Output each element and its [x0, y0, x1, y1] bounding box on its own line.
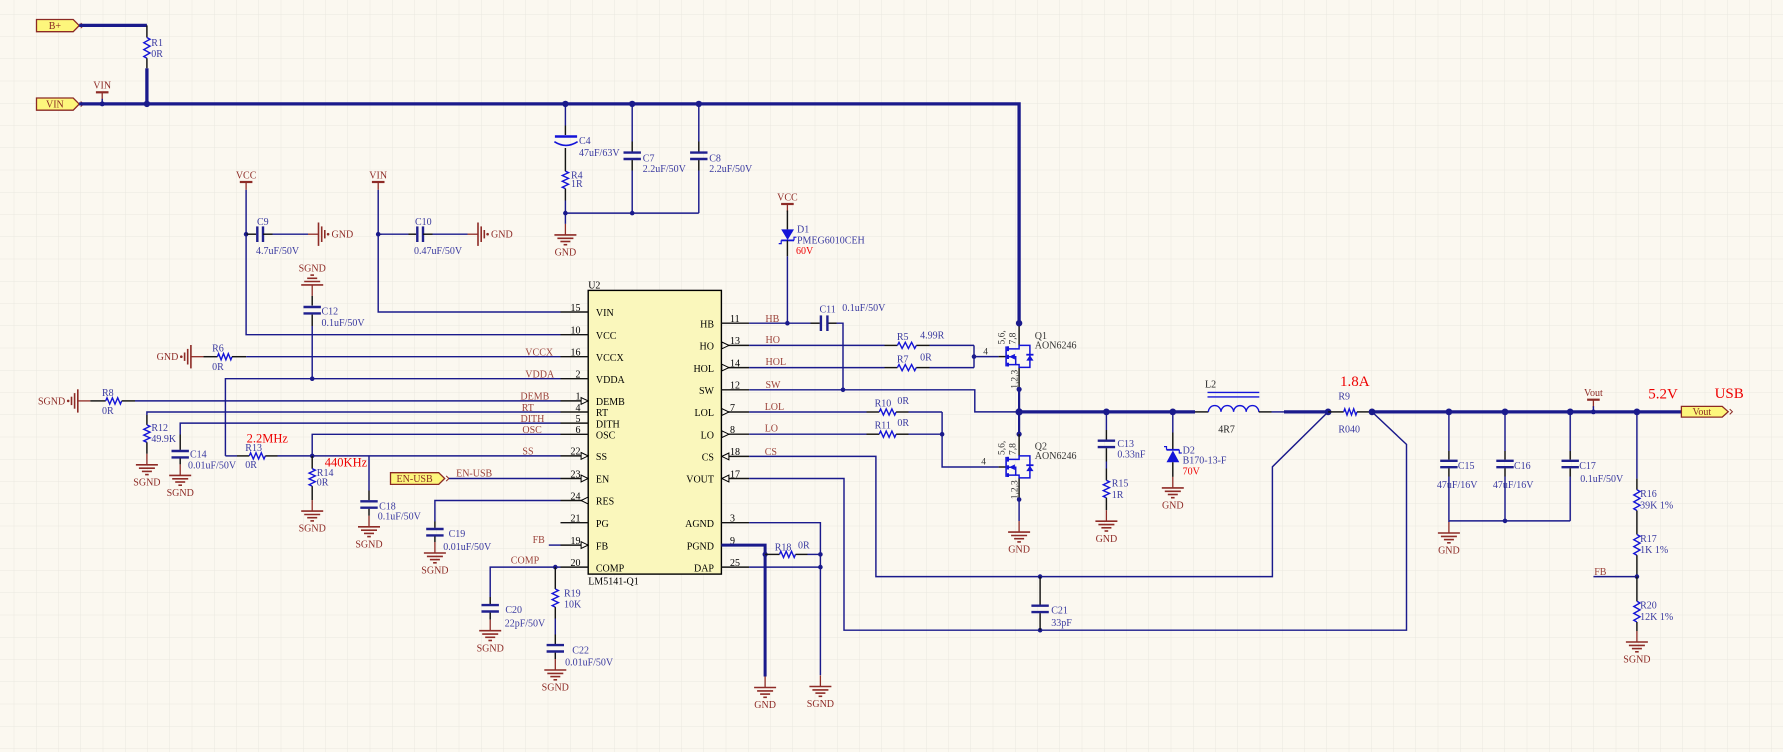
pin 19 FB — [561, 544, 589, 546]
wire to C4 — [564, 104, 566, 126]
capacitor C8 — [690, 151, 707, 153]
wire C17 to gnd rail — [1569, 477, 1571, 521]
svg-text:2.2uF/50V: 2.2uF/50V — [709, 164, 753, 175]
capacitor C17 — [1562, 460, 1579, 462]
ground GND at C9 — [308, 223, 353, 246]
wire HOL row — [749, 367, 884, 369]
pin 6 OSC — [561, 433, 589, 435]
svg-text:DEMB: DEMB — [520, 392, 549, 403]
svg-text:SGND: SGND — [38, 396, 65, 407]
svg-text:20: 20 — [571, 558, 581, 569]
junction C16 on Vout rail — [1502, 409, 1509, 416]
capacitor C13 — [1098, 440, 1115, 442]
svg-text:LO: LO — [701, 430, 714, 441]
wire input cap ground rail — [565, 212, 698, 214]
wire C10 lead — [409, 233, 417, 235]
svg-text:C11: C11 — [820, 304, 836, 315]
wire DITH row — [180, 423, 560, 434]
wire R6 right lead — [232, 356, 246, 358]
junction Q2 drain — [1017, 432, 1022, 437]
svg-text:10: 10 — [571, 326, 581, 337]
svg-text:0R: 0R — [245, 460, 257, 471]
wire R12 bottom lead — [146, 442, 148, 454]
svg-text:5.2V: 5.2V — [1648, 386, 1678, 402]
resistor R16 — [1634, 490, 1640, 511]
svg-text:7,8: 7,8 — [1008, 332, 1018, 344]
pin 13 HO — [721, 344, 749, 346]
svg-text:4.99R: 4.99R — [920, 331, 945, 342]
svg-text:HO: HO — [766, 335, 780, 346]
wire R13 right lead — [265, 455, 277, 457]
ground SGND at C14 — [167, 464, 194, 499]
junction C13 — [1103, 409, 1110, 416]
wire VIN bus — [79, 104, 1019, 323]
ground GND at C15 — [1438, 522, 1460, 557]
wire VIN rail down to pin VIN — [378, 234, 560, 312]
wire R8 left lead — [90, 400, 105, 402]
junction D1/HB — [785, 321, 790, 326]
svg-text:GND: GND — [1008, 545, 1030, 556]
op-amp/controller U2 LM5141-Q1 body — [588, 290, 721, 574]
arrow input FB — [581, 542, 588, 549]
svg-text:0R: 0R — [920, 353, 932, 364]
svg-text:C10: C10 — [415, 217, 432, 228]
svg-text:4.7uF/50V: 4.7uF/50V — [256, 246, 300, 257]
svg-text:23: 23 — [571, 469, 581, 480]
wire OSC row — [312, 434, 560, 456]
wire SW node to Q2 drain — [1018, 412, 1020, 434]
svg-text:GND: GND — [754, 700, 776, 711]
junction Q2 source — [1017, 497, 1022, 502]
svg-text:0R: 0R — [151, 49, 163, 60]
svg-text:0R: 0R — [897, 418, 909, 429]
svg-text:17: 17 — [730, 469, 740, 480]
wire Vout power stub — [1592, 406, 1594, 412]
wire R7 left lead — [885, 367, 898, 369]
resistor R6 — [217, 354, 232, 360]
wire C13 bottom lead — [1105, 448, 1107, 461]
svg-text:C20: C20 — [505, 605, 522, 616]
wire C8 top lead — [698, 142, 700, 152]
svg-text:R9: R9 — [1338, 391, 1350, 402]
pin 21 PG — [561, 522, 589, 524]
svg-text:VCCX: VCCX — [596, 353, 625, 364]
wire gnd rail to GND — [564, 213, 566, 224]
wire SW thick rail — [1019, 410, 1195, 413]
wire D1 cathode lead — [786, 240, 788, 256]
svg-text:1,2,3: 1,2,3 — [1010, 369, 1020, 388]
wire C16 top lead — [1504, 451, 1506, 460]
svg-text:12: 12 — [730, 381, 740, 392]
svg-text:DAP: DAP — [694, 563, 714, 574]
junction R16 on Vout rail — [1634, 409, 1641, 416]
svg-text:22pF/50V: 22pF/50V — [505, 619, 546, 630]
svg-text:HB: HB — [700, 319, 714, 330]
wire C12 to VDDA rail — [311, 326, 313, 379]
resistor R14 — [309, 469, 315, 486]
capacitor C4 (polarized) — [554, 137, 577, 146]
ground SGND above C12 — [299, 264, 326, 296]
svg-text:CS: CS — [702, 453, 714, 464]
pin 2 VDDA — [561, 378, 589, 380]
svg-text:0.1uF/50V: 0.1uF/50V — [842, 303, 886, 314]
svg-text:R8: R8 — [102, 388, 114, 399]
svg-text:SGND: SGND — [477, 643, 504, 654]
svg-text:C15: C15 — [1458, 461, 1475, 472]
svg-text:GND: GND — [1096, 534, 1118, 545]
wire R4 bottom lead — [564, 189, 566, 201]
resistor R17 — [1634, 535, 1640, 556]
svg-text:C13: C13 — [1117, 439, 1134, 450]
svg-text:5: 5 — [576, 414, 581, 425]
svg-text:0.1uF/50V: 0.1uF/50V — [1580, 474, 1624, 485]
junction VIN/Q1 drain — [1016, 320, 1022, 326]
pin 7 LOL — [721, 411, 749, 413]
svg-text:4: 4 — [576, 403, 581, 414]
wire C19 bottom lead — [434, 537, 436, 543]
svg-text:SGND: SGND — [421, 566, 448, 577]
wire FB — [1593, 576, 1637, 578]
wire C4 to R4 lead — [564, 148, 566, 171]
junction C8 column — [696, 101, 702, 107]
wire DEMB row — [135, 400, 561, 402]
svg-text:2: 2 — [576, 370, 581, 381]
svg-text:25: 25 — [730, 558, 740, 569]
wire C11 left lead — [811, 322, 820, 324]
wire RES row — [435, 501, 561, 522]
capacitor C11 — [820, 315, 822, 331]
capacitor C21 — [1031, 605, 1048, 607]
pin 22 SS — [561, 455, 589, 457]
svg-text:4: 4 — [983, 347, 988, 357]
wire R10 right lead — [896, 411, 908, 413]
svg-text:1,2,3: 1,2,3 — [1010, 480, 1020, 499]
svg-text:C14: C14 — [190, 449, 207, 460]
junction C15 on Vout rail — [1446, 409, 1453, 416]
svg-text:22: 22 — [571, 447, 581, 458]
wire HO row — [749, 344, 884, 346]
wire R9 right lead — [1357, 411, 1372, 413]
svg-text:SGND: SGND — [807, 699, 834, 710]
power port VIN left — [369, 170, 387, 189]
svg-text:R5: R5 — [897, 332, 909, 343]
svg-text:0.47uF/50V: 0.47uF/50V — [414, 246, 463, 257]
wire C9 left lead — [246, 233, 256, 235]
wire C13 top lead — [1105, 430, 1107, 440]
wire R16-R17 lead — [1636, 511, 1638, 535]
capacitor C14 — [172, 450, 189, 452]
wire LO row — [749, 433, 866, 435]
wire R11 right lead — [896, 433, 908, 435]
port EN-USB — [391, 473, 449, 485]
resistor R20 — [1634, 601, 1640, 622]
wire R15 top lead — [1105, 469, 1107, 481]
wire C17 top lead — [1569, 451, 1571, 460]
wire EN row — [449, 478, 561, 480]
svg-text:13: 13 — [730, 336, 740, 347]
wire Q2 source to GND — [1018, 500, 1020, 522]
wire D1 to HB — [786, 256, 788, 323]
junction C9/VCC — [244, 232, 249, 237]
wire C20 top lead — [489, 597, 491, 604]
junction PGND/R18 — [763, 552, 768, 557]
svg-text:19: 19 — [571, 536, 581, 547]
svg-text:VCC: VCC — [777, 192, 798, 203]
svg-text:SGND: SGND — [167, 488, 194, 499]
junction FB divider — [1635, 574, 1640, 579]
svg-text:0R: 0R — [102, 406, 114, 417]
pin 1 DEMB — [561, 400, 589, 402]
wire R4 to gnd rail — [564, 201, 566, 214]
wire C18 column — [368, 456, 370, 491]
svg-text:AON6246: AON6246 — [1035, 451, 1077, 462]
power port VIN — [93, 81, 111, 100]
junction OSC/R13/R14 — [310, 454, 315, 459]
svg-text:3: 3 — [730, 514, 735, 525]
arrow input EN — [581, 475, 588, 482]
wire VCCX row — [246, 356, 560, 358]
wire to C13 — [1105, 412, 1107, 430]
wire Vout rail — [1372, 410, 1681, 413]
port Vout — [1681, 406, 1732, 418]
inductor L2 — [1195, 411, 1208, 413]
wire VDDA row — [225, 379, 560, 456]
port B+ — [37, 20, 84, 33]
wire R15 bottom lead — [1105, 498, 1107, 510]
svg-text:FB: FB — [596, 541, 609, 552]
svg-text:C4: C4 — [579, 136, 591, 147]
svg-text:1R: 1R — [571, 179, 583, 190]
svg-text:L2: L2 — [1205, 380, 1216, 391]
wire C11 to SW — [837, 323, 844, 390]
svg-text:VIN: VIN — [596, 308, 614, 319]
wire C14 top lead — [179, 435, 181, 450]
svg-text:R18: R18 — [775, 542, 792, 553]
svg-text:33pF: 33pF — [1051, 618, 1072, 629]
junction gnd rail C7 — [630, 211, 635, 216]
resistor R18 — [780, 551, 796, 557]
wire Vout rail left of R9 — [1284, 410, 1328, 413]
svg-text:1R: 1R — [1112, 490, 1124, 501]
pin 18 CS — [721, 455, 749, 457]
wire R5 to gate node — [930, 344, 975, 346]
junction Vout power port — [1591, 410, 1596, 415]
wire VIN to C10 — [378, 233, 408, 235]
wire C10 left lead — [378, 233, 381, 235]
junction C12/VDDA — [310, 376, 315, 381]
wire CS sense path — [749, 412, 1328, 577]
wire to C8 — [698, 104, 700, 142]
svg-text:VDDA: VDDA — [596, 375, 626, 386]
wire SGND to C12 lead — [311, 296, 313, 306]
wire to D2 — [1172, 412, 1174, 433]
svg-text:LM5141-Q1: LM5141-Q1 — [588, 577, 639, 588]
wire C7 bottom lead — [631, 160, 633, 170]
svg-text:0.01uF/50V: 0.01uF/50V — [565, 658, 614, 669]
wire C9 right lead — [263, 233, 273, 235]
svg-text:R7: R7 — [897, 355, 909, 366]
wire L2 to R9 — [1272, 411, 1285, 413]
pin 5 DITH — [561, 422, 589, 424]
svg-text:COMP: COMP — [511, 556, 540, 567]
svg-text:SGND: SGND — [542, 683, 569, 694]
junction C21 bottom — [1038, 628, 1043, 633]
wire D2 anode lead — [1172, 462, 1174, 477]
pin 20 COMP — [561, 566, 589, 568]
svg-text:R16: R16 — [1640, 489, 1657, 500]
junction C21 top — [1038, 574, 1043, 579]
svg-text:AON6246: AON6246 — [1035, 341, 1077, 352]
wire R20 bottom lead — [1636, 622, 1638, 631]
svg-text:R6: R6 — [212, 344, 224, 355]
svg-text:AGND: AGND — [685, 519, 714, 530]
port VIN — [37, 98, 84, 111]
svg-text:R15: R15 — [1112, 479, 1129, 490]
pin 4 RT — [561, 411, 589, 413]
wire to C17 — [1569, 412, 1571, 451]
wire C10 to GND — [433, 233, 468, 235]
pin 10 VCC — [561, 334, 589, 336]
wire R1 to VIN bus — [145, 68, 148, 104]
wire AGND row — [749, 523, 820, 676]
arrow output RES — [581, 497, 588, 504]
power port VCC at D1 — [777, 192, 798, 211]
svg-text:4R7: 4R7 — [1218, 424, 1235, 435]
ground GND at R6 — [157, 345, 204, 368]
pin 3 AGND — [721, 522, 749, 524]
wire VCC rail down to pin VCC — [246, 234, 560, 335]
svg-text:VIN: VIN — [369, 170, 387, 181]
svg-text:PGND: PGND — [687, 541, 714, 552]
svg-text:HO: HO — [700, 342, 714, 353]
svg-text:C9: C9 — [257, 217, 269, 228]
svg-text:0R: 0R — [212, 362, 224, 373]
svg-text:0.01uF/50V: 0.01uF/50V — [188, 461, 237, 472]
arrow input DEMB — [581, 398, 588, 405]
ground SGND at C19 — [421, 542, 448, 577]
wire R17 bottom lead — [1636, 555, 1638, 576]
svg-text:18: 18 — [730, 447, 740, 458]
wire to C7 — [631, 104, 633, 142]
wire R11 to gate node — [909, 433, 943, 435]
resistor R5 — [897, 342, 916, 348]
svg-text:PMEG6010CEH: PMEG6010CEH — [797, 235, 865, 246]
resistor R7 — [897, 365, 916, 371]
wire R7 right lead — [916, 367, 929, 369]
svg-text:C17: C17 — [1579, 461, 1596, 472]
junction Q2 gate node — [940, 432, 945, 437]
wire gnd stub — [1448, 521, 1450, 522]
svg-text:47uF/16V: 47uF/16V — [1493, 480, 1534, 491]
ground GND input caps — [554, 224, 576, 259]
svg-text:0R: 0R — [798, 541, 810, 552]
resistor R19 — [552, 589, 558, 607]
wire R18 left lead — [765, 553, 779, 555]
svg-text:47uF/63V: 47uF/63V — [579, 148, 620, 159]
svg-text:70V: 70V — [1183, 466, 1201, 477]
wire C14 bottom lead — [179, 459, 181, 465]
pin 16 VCCX — [561, 356, 589, 358]
resistor R9 (shunt) — [1344, 409, 1357, 415]
wire C7 top lead — [631, 142, 633, 152]
wire VIN power stub — [101, 99, 103, 104]
svg-text:DITH: DITH — [521, 414, 545, 425]
svg-text:EN: EN — [596, 475, 609, 486]
svg-text:RT: RT — [596, 408, 608, 419]
svg-text:OSC: OSC — [522, 425, 542, 436]
wire RT row — [147, 412, 561, 415]
svg-text:21: 21 — [571, 514, 581, 525]
wire D2 cathode lead — [1172, 433, 1174, 450]
svg-text:LO: LO — [765, 424, 778, 435]
ground SGND at R8 — [38, 389, 90, 412]
svg-text:B+: B+ — [49, 21, 62, 32]
wire C8 bottom lead — [698, 160, 700, 170]
wire C17 bottom lead — [1569, 468, 1571, 476]
pin 15 VIN — [561, 311, 589, 313]
wire R8 right lead — [122, 400, 135, 402]
wire to C15 — [1448, 412, 1450, 451]
wire Q1 gate node — [973, 345, 975, 367]
wire R1 bottom lead — [146, 58, 148, 68]
svg-text:HOL: HOL — [766, 357, 787, 368]
wire C22 top lead — [554, 635, 556, 645]
svg-text:COMP: COMP — [596, 563, 625, 574]
wire R14 bottom lead — [311, 486, 313, 500]
svg-text:C8: C8 — [709, 153, 721, 164]
wire FB stub — [549, 544, 561, 546]
ground GND at PGND — [754, 677, 776, 712]
capacitor C7 — [624, 151, 641, 153]
pin 12 SW — [721, 389, 749, 391]
wire R7 to gate node — [930, 367, 975, 369]
wire R13 left lead — [237, 455, 249, 457]
svg-text:7: 7 — [730, 403, 735, 414]
diode D2 B170-13-F — [1164, 447, 1182, 463]
svg-text:10K: 10K — [564, 600, 582, 611]
pin 25 DAP — [721, 566, 749, 568]
resistor R8 — [106, 398, 122, 404]
pin 11 HB — [721, 322, 749, 324]
svg-text:SS: SS — [596, 452, 607, 463]
wire C21 top lead — [1039, 577, 1041, 605]
ground SGND at R14 — [299, 500, 326, 535]
svg-text:VCC: VCC — [236, 170, 257, 181]
wire VOUT sense path — [749, 412, 1406, 630]
svg-text:GND: GND — [1438, 546, 1460, 557]
svg-text:7,8: 7,8 — [1008, 443, 1018, 455]
wire R6 left lead — [203, 356, 217, 358]
wire C15 bottom lead — [1448, 468, 1450, 476]
wire C11 right lead — [829, 322, 837, 324]
wire D1 anode lead — [786, 211, 788, 230]
power port Vout — [1584, 388, 1603, 407]
junction D2 — [1169, 409, 1176, 416]
wire SW row — [749, 390, 1019, 412]
svg-text:47uF/16V: 47uF/16V — [1437, 480, 1478, 491]
svg-text:U2: U2 — [588, 281, 600, 292]
wire R10 left lead — [867, 411, 880, 413]
svg-text:R17: R17 — [1640, 534, 1657, 545]
pin 23 EN — [561, 478, 589, 480]
svg-text:8: 8 — [730, 425, 735, 436]
wire VCC down to C9 — [245, 190, 247, 234]
svg-text:USB: USB — [1715, 386, 1744, 402]
svg-text:R11: R11 — [875, 420, 891, 431]
wire R18 right lead — [796, 553, 808, 555]
wire C7 to gnd rail — [631, 171, 633, 214]
junction gnd rail C16 — [1503, 519, 1508, 524]
